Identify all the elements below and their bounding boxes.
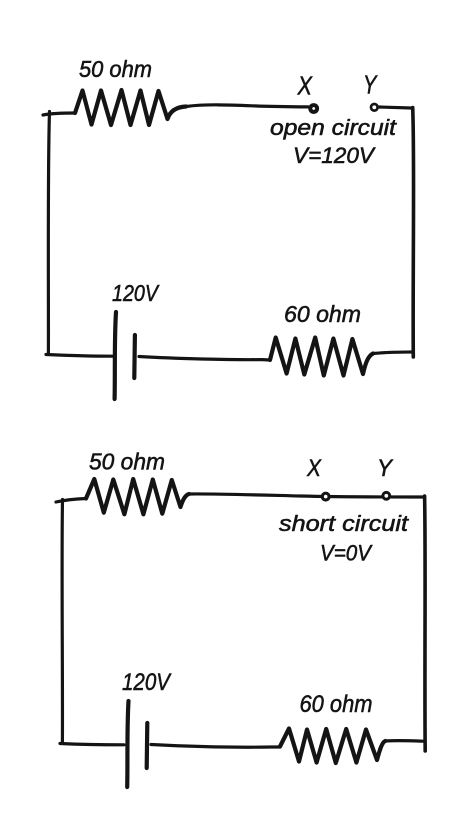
svg-text:50 ohm: 50 ohm: [89, 449, 165, 475]
wire: battery B2 to resistor R4: [151, 745, 280, 748]
node Y terminal (open): [371, 104, 378, 111]
wire: resistor R1 to terminal X: [186, 105, 308, 107]
svg-text:open circuit: open circuit: [270, 115, 397, 140]
resistor R4 60 ohm zigzag (circuit 2): [280, 729, 385, 764]
node X terminal on wire (circuit 2): [322, 493, 329, 500]
svg-text:120V: 120V: [112, 280, 160, 306]
svg-text:short circuit: short circuit: [279, 511, 409, 536]
wire: bottom-right horizontal (circuit 2): [385, 739, 424, 743]
svg-text:V=0V: V=0V: [320, 541, 373, 566]
resistor R1 50 ohm zigzag: [75, 90, 186, 125]
wire: resistor R3 to corner through X,Y (short circuit): [189, 494, 423, 497]
wire: right vertical: [411, 108, 415, 358]
battery B1 long plate (+): [115, 312, 116, 399]
battery B2 long plate (+): [127, 701, 128, 787]
svg-text:60 ohm: 60 ohm: [300, 691, 373, 718]
wire: top-left lead: [43, 113, 75, 115]
wire: top-left lead (circuit 2): [56, 499, 86, 503]
resistor R3 50 ohm zigzag (circuit 2): [86, 479, 189, 514]
wire: bottom-right horizontal: [373, 352, 412, 354]
wire: right vertical (circuit 2): [423, 496, 427, 751]
wire: left vertical: [48, 112, 49, 354]
wire: left vertical (circuit 2): [60, 500, 64, 743]
wire: terminal Y to top-right corner: [379, 107, 411, 108]
svg-text:X: X: [297, 71, 314, 101]
wire: battery B1 to resistor R2: [139, 357, 270, 361]
svg-text:Y: Y: [377, 455, 394, 482]
svg-text:120V: 120V: [122, 669, 172, 696]
battery B1 short plate (-): [132, 335, 137, 378]
node Y terminal on wire (circuit 2): [383, 492, 390, 499]
wire: bottom-left horizontal: [46, 355, 113, 357]
svg-text:50 ohm: 50 ohm: [79, 56, 152, 82]
svg-text:60 ohm: 60 ohm: [284, 301, 361, 327]
svg-text:Y: Y: [363, 70, 378, 100]
resistor R2 60 ohm zigzag: [270, 338, 373, 376]
battery B2 short plate (-): [145, 723, 150, 768]
svg-text:X: X: [306, 455, 322, 482]
svg-text:V=120V: V=120V: [293, 143, 376, 168]
wire: bottom-left horizontal (circuit 2): [60, 744, 124, 745]
node X terminal (open): [310, 105, 317, 112]
